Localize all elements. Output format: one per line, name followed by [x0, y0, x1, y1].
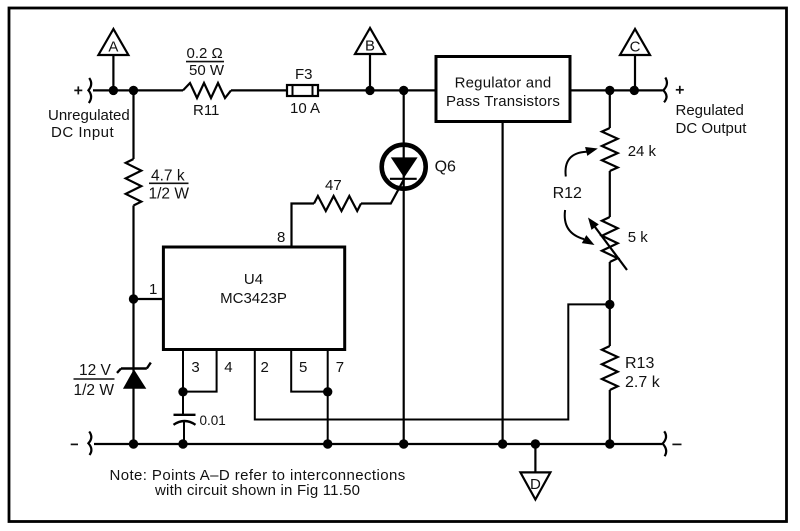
- svg-text:5 k: 5 k: [628, 229, 649, 246]
- svg-text:0.01: 0.01: [200, 413, 226, 428]
- resistor R13: [602, 346, 618, 390]
- svg-text:12 V: 12 V: [79, 362, 112, 379]
- wire top rail right segment: [570, 89, 663, 91]
- svg-text:4: 4: [224, 359, 232, 376]
- regulator box: [436, 57, 570, 122]
- svg-text:with circuit shown in Fig 11.5: with circuit shown in Fig 11.50: [154, 482, 360, 499]
- svg-text:C: C: [630, 39, 641, 56]
- wire right vertical top: [609, 90, 611, 128]
- minus sign bottom-left: [71, 443, 78, 445]
- minus sign bottom-right: [672, 443, 681, 445]
- svg-text:47: 47: [325, 177, 342, 194]
- svg-text:2.7 k: 2.7 k: [625, 374, 661, 391]
- svg-text:F3: F3: [295, 66, 313, 83]
- resistor 47: [314, 196, 361, 211]
- wire regulator box to ground: [502, 122, 504, 445]
- svg-text:MC3423P: MC3423P: [220, 290, 287, 307]
- svg-text:3: 3: [191, 359, 199, 376]
- plus sign output: [676, 89, 684, 91]
- svg-text:8: 8: [277, 229, 285, 246]
- svg-text:DC Output: DC Output: [676, 120, 748, 137]
- IC U4 MC3423P: [163, 247, 344, 350]
- terminal D triangle: [534, 444, 536, 472]
- wire top rail left segment: [93, 89, 183, 91]
- svg-text:R12: R12: [553, 185, 582, 202]
- fuse F3: [287, 85, 318, 96]
- pin 5 stub: [291, 350, 328, 392]
- wire gate of Q6: [361, 179, 404, 204]
- svg-text:A: A: [108, 39, 118, 56]
- svg-text:U4: U4: [244, 271, 263, 288]
- input break brace top-left: [88, 78, 91, 103]
- resistor 24k: [602, 128, 618, 171]
- svg-text:R11: R11: [193, 102, 219, 119]
- svg-text:Pass Transistors: Pass Transistors: [446, 93, 560, 110]
- break brace bottom-left: [88, 432, 91, 456]
- node left vertical upper: [132, 90, 134, 159]
- potentiometer 5k: [602, 217, 618, 262]
- pin 3 stub: [182, 350, 184, 392]
- svg-text:Regulator and: Regulator and: [455, 75, 552, 92]
- SCR Q6: [382, 145, 426, 189]
- terminal A triangle: [98, 29, 128, 55]
- svg-text:1: 1: [149, 281, 157, 298]
- svg-text:4.7 k: 4.7 k: [151, 168, 185, 185]
- wire sense line from pin 2: [255, 304, 610, 419]
- resistor 4.7k: [126, 159, 142, 206]
- svg-text:D: D: [530, 476, 541, 493]
- wire 5k to junction: [609, 262, 611, 346]
- svg-text:R13: R13: [625, 355, 654, 372]
- arrow R12 upper: [566, 152, 587, 177]
- terminal B triangle: [355, 28, 385, 54]
- capacitor 0.01: [182, 392, 184, 415]
- wire between 24k and 5k: [609, 171, 611, 217]
- junction dots: [109, 86, 118, 95]
- wire A stem: [112, 55, 114, 90]
- svg-text:1/2 W: 1/2 W: [149, 186, 190, 203]
- svg-text:DC Input: DC Input: [51, 124, 115, 141]
- svg-text:1/2 W: 1/2 W: [74, 382, 115, 399]
- plus sign input: [74, 89, 82, 91]
- pin 8 wire: [292, 204, 315, 248]
- svg-text:7: 7: [336, 359, 344, 376]
- arrow R12 lower: [565, 210, 584, 239]
- svg-text:50 W: 50 W: [189, 62, 225, 79]
- break brace bottom-right: [663, 431, 667, 456]
- wire Q6 vertical anode-cathode: [403, 90, 405, 444]
- svg-text:Unregulated: Unregulated: [48, 107, 130, 124]
- output break brace top-right: [663, 78, 667, 103]
- svg-text:Regulated: Regulated: [676, 102, 744, 119]
- svg-text:Q6: Q6: [435, 159, 456, 176]
- pin 7 stub: [327, 350, 329, 445]
- svg-text:2: 2: [261, 359, 269, 376]
- wire B stem: [369, 54, 371, 90]
- pin 1 wire: [134, 298, 164, 300]
- resistor R11: [183, 83, 231, 98]
- svg-text:0.2 Ω: 0.2 Ω: [187, 45, 223, 62]
- svg-text:10 A: 10 A: [290, 100, 320, 117]
- svg-text:5: 5: [299, 359, 307, 376]
- wire rail R11 to fuse: [231, 89, 287, 91]
- svg-text:B: B: [365, 38, 375, 55]
- svg-text:24 k: 24 k: [628, 143, 657, 160]
- wire left vertical lower: [132, 206, 134, 445]
- wire bottom ground rail: [94, 443, 662, 445]
- pin 4 stub: [183, 350, 217, 392]
- zener diode 12V: [121, 367, 147, 369]
- wire rail fuse to regulator box: [318, 89, 436, 91]
- terminal C triangle: [620, 29, 650, 55]
- wire C stem: [634, 55, 636, 90]
- wire R13 to ground rail: [609, 390, 611, 444]
